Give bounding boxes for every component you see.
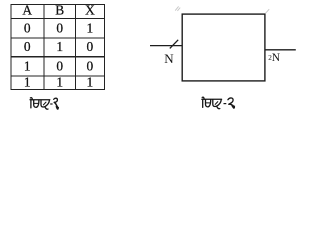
svg-text:0: 0 [56,58,63,73]
svg-text:B: B [55,3,64,18]
svg-text:N: N [164,51,174,66]
svg-text:1: 1 [24,58,31,73]
svg-text:1: 1 [56,75,63,90]
svg-text:0: 0 [87,58,94,73]
svg-text:1: 1 [56,39,63,54]
svg-text:1: 1 [87,20,94,35]
svg-text:0: 0 [24,39,31,54]
svg-text:0: 0 [56,20,63,35]
svg-text:0: 0 [24,20,31,35]
svg-text:X: X [85,3,95,18]
svg-text:0: 0 [87,39,94,54]
svg-text:N: N [272,52,281,64]
svg-text:1: 1 [87,75,94,90]
svg-text:1: 1 [24,75,31,90]
svg-text:A: A [22,3,32,18]
